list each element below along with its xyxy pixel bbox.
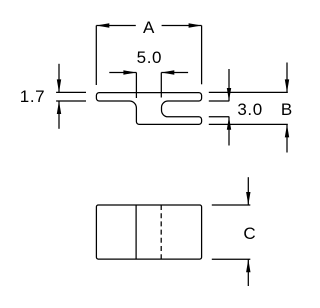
dimension 3.0 label: [237, 100, 262, 119]
svg-text:1.7: 1.7: [20, 87, 45, 106]
dimension B lower arrow (points up): [285, 124, 289, 152]
svg-text:A: A: [143, 18, 155, 37]
svg-text:5.0: 5.0: [137, 48, 162, 67]
dimension C upper arrow (points down): [246, 177, 250, 205]
svg-text:B: B: [281, 100, 292, 119]
dimension 5.0 left arrow (points right): [109, 70, 136, 74]
dimension A extension line left: [95, 26, 97, 86]
dimension A line right segment with right arrowhead: [162, 23, 202, 27]
dimension 5.0 right arrow (points left): [161, 70, 188, 74]
fold line (dashed): [160, 205, 162, 259]
dimension 5.0 label: [137, 48, 162, 67]
dimension A label: [143, 18, 155, 37]
dimension 1.7 lower arrow (points up): [57, 101, 61, 129]
dimension 1.7 extension line upper: [56, 91, 86, 93]
dimension B upper arrow (points down): [285, 63, 289, 93]
dimension C label: [243, 224, 255, 243]
dimension 5.0 extension line left: [135, 73, 137, 99]
dimension 3.0 lower arrow (points up): [227, 117, 231, 146]
dimension C lower arrow (points up): [246, 259, 250, 286]
dimension 1.7 extension line lower: [56, 100, 86, 102]
dimension A line left segment with left arrowhead: [96, 23, 136, 27]
svg-text:3.0: 3.0: [237, 100, 262, 119]
extension line top-prong underside right (short, to 3.0 arrow): [209, 100, 230, 102]
dimension C extension line lower: [212, 258, 251, 260]
extension line bottom-edge right (long, to B arrow): [209, 123, 288, 125]
clip side-profile outline: [96, 93, 201, 125]
extension line top-edge right (long, to B arrow): [209, 91, 288, 93]
dimension A extension line right: [201, 26, 203, 85]
extension line bottom-prong top right (short, to 3.0 arrow): [209, 116, 230, 118]
plan-view rectangle: [96, 205, 201, 259]
dimension C extension line upper: [212, 204, 251, 206]
svg-text:C: C: [243, 224, 255, 243]
dimension 5.0 extension line right: [160, 73, 162, 98]
dimension 1.7 upper arrow (points down): [57, 64, 61, 93]
dimension 3.0 upper arrow (points down): [227, 69, 231, 101]
dimension 1.7 label: [20, 87, 45, 106]
bend line (solid): [135, 205, 137, 259]
dimension B label: [281, 100, 292, 119]
